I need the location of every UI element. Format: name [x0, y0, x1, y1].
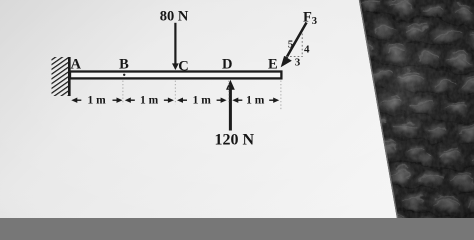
slope triangle vertical side (4)	[301, 34, 303, 57]
svg-text:4: 4	[304, 44, 310, 56]
svg-text:D: D	[222, 56, 232, 72]
node A label	[71, 56, 82, 72]
paper edge shadow line	[360, 0, 398, 218]
wall face line	[68, 57, 71, 96]
svg-text:1 m: 1 m	[140, 95, 159, 107]
svg-text:80 N: 80 N	[160, 9, 189, 25]
svg-text:1 m: 1 m	[87, 95, 106, 107]
slope triangle horizontal side (3)	[286, 56, 302, 58]
svg-text:C: C	[178, 58, 188, 74]
node C label	[178, 58, 188, 74]
dimension segment D-E (1 m)	[232, 95, 279, 107]
force arrow 80 N (down at C)	[172, 23, 179, 70]
dimension segment C-D (1 m)	[177, 95, 227, 107]
force arrow 120 N (up at D)	[226, 80, 235, 131]
svg-text:E: E	[268, 56, 278, 72]
svg-text:120 N: 120 N	[215, 131, 255, 148]
wall support hatching	[52, 57, 70, 96]
svg-text:3: 3	[312, 16, 317, 27]
extension dotted line at C	[174, 81, 176, 105]
label F3	[303, 10, 317, 27]
extension dotted line at B	[122, 81, 124, 105]
slope label 4	[304, 44, 310, 56]
dark knitted fabric background (right of paper edge)	[345, 0, 474, 235]
node E label	[268, 56, 278, 72]
dimension segment B-C (1 m)	[125, 95, 174, 107]
extension dotted line at E	[280, 81, 282, 110]
beam ABCDE	[70, 72, 281, 79]
svg-text:5: 5	[288, 39, 294, 51]
svg-text:F: F	[303, 10, 312, 26]
label 120 N	[215, 131, 255, 148]
svg-text:A: A	[71, 56, 82, 72]
svg-text:1 m: 1 m	[193, 95, 212, 107]
svg-text:B: B	[119, 56, 129, 72]
svg-text:1 m: 1 m	[246, 95, 265, 107]
node B label	[119, 56, 129, 72]
extension dotted line at D	[228, 81, 230, 105]
slope label 3	[295, 57, 301, 69]
svg-text:3: 3	[295, 57, 301, 69]
node D label	[222, 56, 232, 72]
centre dot on beam at B	[123, 74, 125, 76]
force F3 arrow (at E, slope 3-4-5, pointing down-left into E)	[281, 23, 307, 68]
slope label 5	[288, 39, 294, 51]
label 80 N	[160, 9, 189, 25]
dimension segment A-B (1 m)	[71, 95, 122, 107]
